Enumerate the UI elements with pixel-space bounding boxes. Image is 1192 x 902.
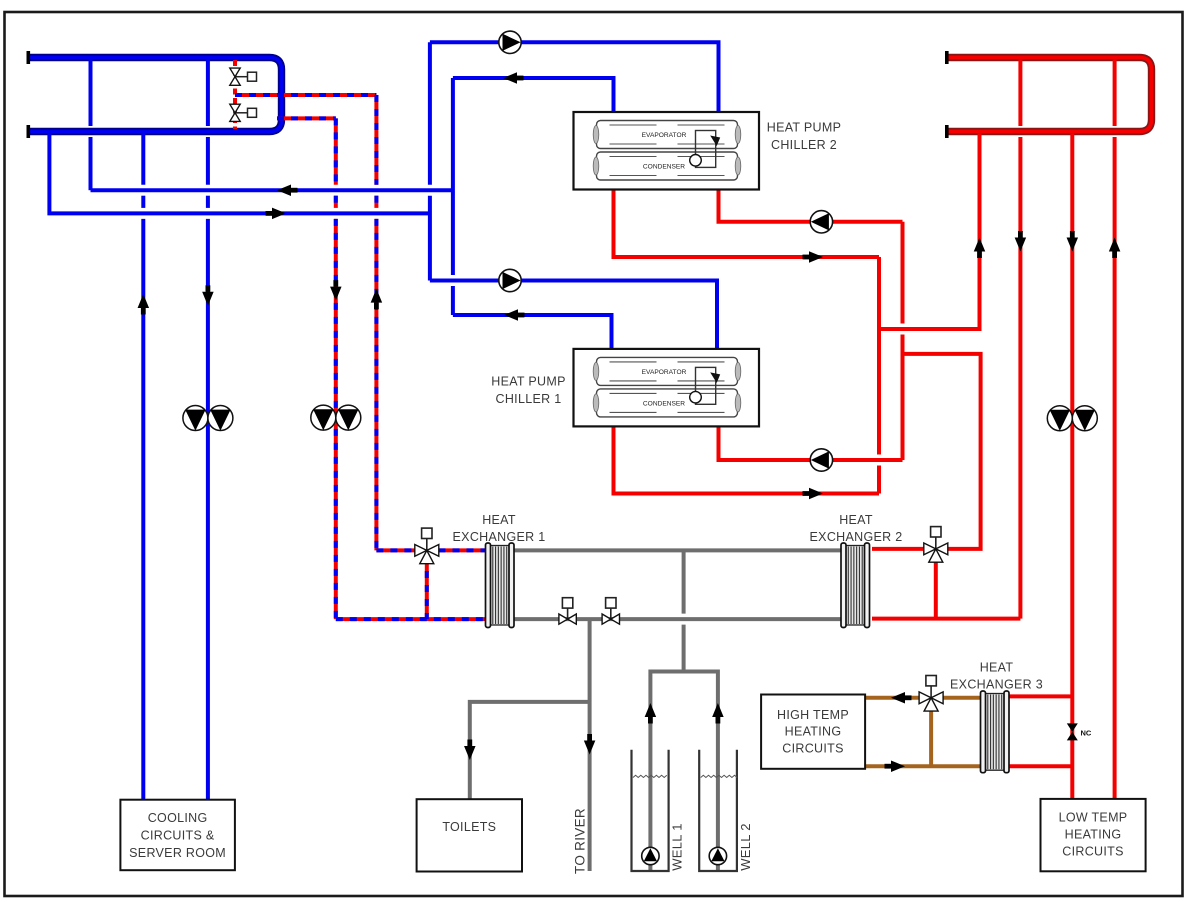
arrow: chiller 2 return flow left [503, 72, 524, 84]
heat exchanger HX2 plates [841, 543, 870, 628]
red header: heating distribution header loop [948, 58, 1152, 132]
heat exchanger HX1 plates [486, 543, 515, 628]
svg-text:TOILETS: TOILETS [442, 820, 496, 834]
label: heat exchanger 2 [810, 513, 903, 544]
gray pipe: well water return line HX1 to HX2 [512, 617, 843, 621]
box: toilets [417, 799, 522, 871]
svg-text:WELL 1: WELL 1 [670, 823, 685, 871]
label: toilets box [442, 820, 496, 834]
brown pipe: HT heating return [864, 764, 982, 768]
three-way valve at HX3 [919, 676, 943, 712]
twin pump: LT heating circuits [1047, 406, 1097, 431]
arrow: LT return flow up [1109, 238, 1121, 259]
arrow: chiller1 condenser supply flow right [803, 488, 824, 500]
svg-text:HEATING: HEATING [1065, 828, 1122, 842]
well pump 2 [709, 847, 726, 864]
blue pipe: evaporator return main [91, 188, 453, 192]
well 1 casing and water [632, 750, 669, 871]
svg-text:EXCHANGER 3: EXCHANGER 3 [950, 678, 1043, 692]
red pipe: condenser supply collector (hops pump line) [877, 257, 881, 494]
gray pipe: well water supply header HX1 to HX2 [512, 548, 843, 552]
blue pipe: chiller 1 evaporator return line [453, 315, 612, 349]
red pipe: HX2 bottom connection [872, 617, 1020, 621]
red pipe: chiller 1 condenser return via pump [719, 425, 903, 460]
two-way valve on gray return B [602, 598, 619, 625]
pump P-CH2 evaporator [499, 31, 521, 53]
red pipe: chiller 2 condenser return via pump [719, 190, 903, 222]
dashed pipe: valve to HX1 top [439, 548, 489, 552]
svg-text:WELL 2: WELL 2 [738, 823, 753, 871]
blue pipe: cooling circuits supply drop (hops bottom header) [206, 60, 210, 800]
label: low temp box [1059, 811, 1128, 859]
brown pipe: HT heating supply [864, 696, 920, 700]
label: heat pump chiller 2 [767, 121, 841, 153]
box: high temp heating circuits [761, 695, 865, 769]
label: heat pump chiller 1 [491, 375, 565, 407]
red pipe: HX2 return drop from top header (hops bottom header) [1018, 60, 1022, 619]
pump P-CH1 condenser [810, 449, 832, 471]
svg-text:SERVER ROOM: SERVER ROOM [129, 846, 226, 860]
svg-text:HEAT: HEAT [482, 513, 516, 527]
svg-text:CONDENSER: CONDENSER [643, 164, 685, 171]
arrow: HX2 drop flow down [1015, 231, 1027, 252]
arrow: riser flow up [974, 238, 986, 259]
heat pump chiller 1 unit [574, 349, 760, 427]
svg-text:CIRCUITS: CIRCUITS [782, 742, 843, 756]
brown pipe: HX3 valve to plate [943, 696, 983, 700]
arrow: to river flow down [584, 734, 596, 755]
motorized valve V2 in header loop [230, 104, 257, 121]
label: cooling circuits box [129, 811, 226, 860]
label: to river [573, 808, 588, 874]
label: heat exchanger 1 [453, 513, 546, 544]
dashed pipe: changeover riser A (hops mains) [334, 118, 338, 619]
pump P-CH1 evaporator [499, 269, 521, 291]
gray pipe: wells riser (hops return line) [682, 550, 686, 671]
arrow: changeover B flow up [371, 289, 383, 310]
red pipe: HX3 top connection [1008, 694, 1072, 698]
blue pipe: chiller 1 evaporator supply line [430, 281, 717, 349]
svg-text:CIRCUITS &: CIRCUITS & [141, 829, 215, 843]
twin pump: cooling circuits [183, 406, 233, 431]
arrow: evap return flow left [277, 184, 298, 196]
dashed pipe: changeover riser B (hops mains) [374, 95, 378, 550]
svg-text:HEATING: HEATING [785, 725, 842, 739]
red pipe: LT heating return riser to top header (hops bottom header) [1113, 60, 1117, 799]
dashed pipe: changeover line upper [235, 93, 376, 97]
two-way valve on gray return A [559, 598, 576, 625]
svg-text:CIRCUITS: CIRCUITS [1062, 845, 1123, 859]
svg-text:HEAT: HEAT [980, 661, 1014, 675]
dashed pipe: HX1 valve to plate inlet [376, 548, 415, 552]
arrow: LT supply flow down [1067, 231, 1079, 252]
red pipe: chiller 1 condenser supply [614, 425, 880, 493]
red pipe: condenser return drop (hops supply line) [901, 222, 905, 460]
arrow: well 1 flow up [645, 703, 657, 724]
label: high temp box [777, 708, 849, 756]
heat pump chiller 2 unit [574, 112, 760, 190]
NC valve on LT heating drop [1067, 723, 1092, 740]
three-way valve at HX2 [924, 527, 948, 563]
blue pipe: cooling circuits return riser [141, 134, 145, 800]
label: well 1 [670, 823, 685, 871]
arrow: toilets flow down [464, 740, 476, 761]
red pipe: condenser supply riser to bottom header [879, 134, 980, 329]
arrow: chiller 1 return flow left [504, 309, 525, 321]
svg-text:LOW TEMP: LOW TEMP [1059, 811, 1128, 825]
label: well 2 [738, 823, 753, 871]
blue pipe: chiller supply riser left (hops return main) [428, 42, 432, 280]
red header end cap ticks [945, 51, 949, 138]
motorized valve V1 in header loop [230, 68, 257, 85]
svg-text:HIGH TEMP: HIGH TEMP [777, 708, 849, 722]
dashed pipe: HX1 bottom run [336, 617, 488, 621]
well 2 casing and water [699, 750, 737, 871]
svg-text:TO RIVER: TO RIVER [573, 808, 588, 874]
red pipe: HX2 valve bypass drop [934, 555, 938, 619]
arrow: well 2 flow up [712, 703, 724, 724]
dashed pipe: HX1 valve bypass drop [425, 557, 429, 619]
svg-text:EXCHANGER 2: EXCHANGER 2 [810, 530, 903, 544]
box: low temp heating circuits [1041, 799, 1146, 871]
gray pipe: wells header [650, 672, 718, 872]
brown pipe: HX3 valve bypass drop [929, 704, 933, 766]
svg-text:NC: NC [1081, 729, 1092, 738]
svg-text:HEAT PUMP: HEAT PUMP [491, 375, 565, 389]
arrow: evap supply flow right [266, 208, 287, 220]
blue header: cooling distribution header loop [29, 58, 282, 132]
pump P-CH2 condenser [810, 211, 832, 233]
svg-text:CHILLER 1: CHILLER 1 [496, 392, 562, 406]
svg-text:CHILLER 2: CHILLER 2 [771, 138, 837, 152]
svg-text:HEAT PUMP: HEAT PUMP [767, 121, 841, 135]
well pump 1 [642, 847, 659, 864]
arrow: HT return flow right [885, 760, 906, 772]
twin pump: changeover circuit [311, 405, 361, 430]
label: heat exchanger 3 [950, 661, 1043, 692]
arrow: HT supply flow left [891, 692, 912, 704]
red pipe: LT heating supply drop from bottom header [1070, 134, 1074, 799]
box: cooling circuits and server room [120, 800, 234, 871]
svg-text:EVAPORATOR: EVAPORATOR [642, 132, 687, 139]
blue pipe: chiller return riser right (hops chiller1 supply) [451, 78, 455, 315]
svg-text:CONDENSER: CONDENSER [643, 400, 685, 407]
svg-text:EVAPORATOR: EVAPORATOR [642, 369, 687, 376]
dashed pipe: changeover line lower [277, 116, 336, 120]
three-way valve at HX1 [415, 528, 439, 564]
arrow: cooling supply flow down [202, 285, 214, 306]
svg-text:EXCHANGER 1: EXCHANGER 1 [453, 530, 546, 544]
blue pipe: evap return riser to top header (hops bottom header) [89, 60, 93, 190]
blue pipe: evap supply drop from bottom header [49, 134, 430, 213]
red pipe: HX3 bottom connection [1008, 764, 1072, 768]
red pipe: chiller 2 condenser supply [614, 190, 880, 258]
blue header end cap ticks [27, 51, 31, 138]
blue pipe: chiller 2 evaporator return line [453, 78, 614, 112]
red pipe: HX2 heat recovery branch [903, 354, 981, 549]
dashed red valve manifold line in header loop [233, 60, 237, 129]
heat exchanger HX3 plates [981, 691, 1010, 773]
svg-text:HEAT: HEAT [839, 513, 873, 527]
gray pipe: discharge line to river [588, 619, 592, 871]
blue pipe: chiller 2 evaporator supply line [430, 42, 719, 112]
arrow: changeover A flow down [330, 280, 342, 301]
arrow: cooling return flow up [138, 294, 150, 315]
arrow: condenser supply flow right [803, 251, 824, 263]
red pipe: HX2 top connection [872, 547, 924, 551]
svg-text:COOLING: COOLING [148, 811, 208, 825]
gray pipe: toilets branch [470, 702, 590, 799]
